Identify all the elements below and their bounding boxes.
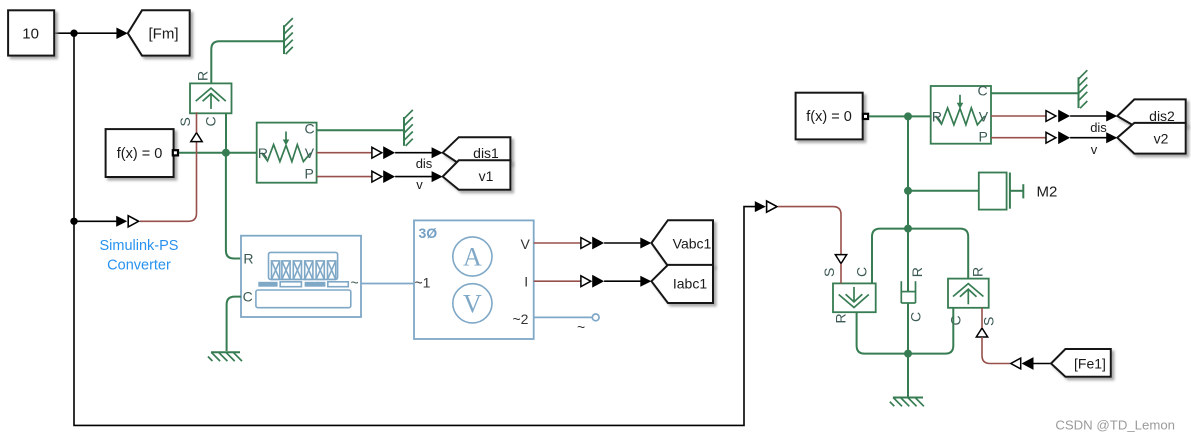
PS-Simulink converter (dis row) bbox=[372, 146, 395, 159]
svg-text:~2: ~2 bbox=[513, 311, 529, 327]
goto tag Vabc1 bbox=[651, 220, 713, 266]
wire: to goto Vabc1 bbox=[604, 238, 651, 249]
ground G1 bbox=[284, 18, 293, 54]
wire: converter to goto v1, label v bbox=[395, 171, 443, 192]
linear machine block U4 (light blue) bbox=[241, 236, 361, 317]
node: junction to mass M2 bbox=[904, 187, 912, 195]
svg-text:f(x) = 0: f(x) = 0 bbox=[806, 109, 852, 125]
wire: to goto Iabc1 bbox=[604, 276, 651, 287]
PS-Simulink converter ([Fe1] row, pointing left) bbox=[1011, 357, 1034, 370]
goto tag dis2 bbox=[1117, 99, 1185, 126]
wire: stub from triangle into U8 bbox=[840, 264, 842, 284]
force source U2 (chevron up) bbox=[190, 83, 232, 113]
svg-text:CSDN @TD_Lemon: CSDN @TD_Lemon bbox=[1055, 418, 1175, 433]
force source U10 (chevron up) bbox=[948, 279, 989, 308]
wire: main vertical bus of right cluster bbox=[907, 116, 909, 292]
wire: long feedback wire down, across bottom and up to right converter bbox=[74, 33, 755, 425]
ground G4 bbox=[208, 352, 242, 361]
Simulink-PS converter 1 (triangle icon) bbox=[128, 216, 138, 227]
svg-text:Vabc1: Vabc1 bbox=[673, 236, 712, 252]
ground G2 bbox=[404, 110, 413, 146]
wire: red S input of U2 from converter bbox=[140, 142, 197, 222]
svg-text:v: v bbox=[416, 177, 423, 192]
svg-text:C: C bbox=[948, 315, 964, 325]
force source U8 (chevron down) bbox=[833, 283, 876, 312]
wire: red from triangle to from tag [Fe1] bbox=[982, 337, 1010, 364]
wire: to goto dis2, label dis bbox=[1070, 111, 1117, 136]
wire: U10 C to bottom junction bbox=[908, 308, 953, 354]
wire: U2 R port up to ground G1 bbox=[211, 41, 283, 83]
wire: U8 R to bottom junction bbox=[857, 312, 908, 353]
wire: stub from S triangle to U2 bbox=[196, 112, 198, 132]
motion sensor U7 bbox=[931, 83, 991, 145]
svg-text:v1: v1 bbox=[479, 168, 494, 184]
svg-text:C: C bbox=[202, 116, 218, 126]
svg-text:V: V bbox=[463, 289, 482, 318]
wire: U2 C port down to junction bbox=[225, 113, 227, 152]
svg-text:R: R bbox=[932, 109, 942, 125]
svg-text:P: P bbox=[305, 165, 314, 181]
goto tag v1 bbox=[443, 160, 511, 190]
wire: U7 V output (red) bbox=[991, 115, 1046, 117]
svg-text:v: v bbox=[1091, 142, 1098, 157]
goto tag Iabc1 bbox=[651, 265, 713, 303]
svg-text:~: ~ bbox=[351, 275, 359, 291]
wire: U7 P output (red) bbox=[991, 137, 1046, 139]
svg-text:dis1: dis1 bbox=[473, 145, 499, 161]
node: junction right cluster top bbox=[904, 112, 912, 120]
pin triangle S of U10 bbox=[976, 328, 987, 337]
ground G5 bbox=[890, 398, 924, 407]
svg-text:S: S bbox=[821, 268, 837, 277]
damper U9 bbox=[901, 281, 917, 303]
svg-text:R: R bbox=[258, 145, 268, 161]
solver block U6 f(x)=0 bbox=[796, 93, 869, 140]
svg-text:R: R bbox=[970, 267, 986, 277]
node: junction to Simulink-PS Converter bbox=[70, 218, 77, 225]
ground G3 bbox=[1079, 70, 1088, 108]
svg-text:I: I bbox=[524, 274, 528, 290]
svg-text:dis: dis bbox=[1090, 120, 1107, 135]
svg-text:V: V bbox=[521, 236, 531, 252]
wire: junction to Simulink-PS converter 1 bbox=[74, 216, 127, 227]
wire: junction to ground G5 bbox=[907, 354, 909, 398]
svg-text:R: R bbox=[243, 251, 253, 267]
svg-text:C: C bbox=[908, 312, 924, 322]
wire: U5 V output (red) bbox=[534, 242, 581, 244]
pin triangle S of U2 bbox=[191, 133, 202, 142]
svg-text:Simulink-PS: Simulink-PS bbox=[100, 238, 179, 254]
wire: from tag [Fe1] to converter bbox=[1034, 363, 1052, 365]
wire: U9 C to bottom junction bbox=[907, 303, 909, 354]
svg-text:V: V bbox=[979, 109, 989, 125]
svg-text:C: C bbox=[243, 289, 253, 305]
wire: U5 ~2 unconnected stub bbox=[534, 314, 599, 335]
svg-text:10: 10 bbox=[22, 26, 39, 43]
svg-text:R: R bbox=[195, 71, 211, 81]
wire: junction down to linear machine R port bbox=[226, 153, 241, 259]
PS-Simulink converter (Vabc row) bbox=[581, 237, 604, 250]
goto tag v2 bbox=[1117, 123, 1185, 154]
three-phase VI measurement block U5 bbox=[414, 220, 534, 339]
wire: stub from U10 into triangle bbox=[981, 308, 983, 328]
pin triangle S of U8 bbox=[835, 255, 846, 264]
wire: U7 C port to ground G3 bbox=[991, 92, 1078, 94]
wire: junction to mass M2 bbox=[908, 190, 979, 192]
wire: red from converter 2 to force source U8 S input bbox=[778, 207, 841, 255]
wire: U4 C port to ground G4 bbox=[227, 297, 241, 351]
svg-text:v2: v2 bbox=[1154, 131, 1169, 147]
PS-Simulink converter (Iabc row) bbox=[581, 275, 604, 288]
wire: U3 P output (red) to PS-Simulink converter bbox=[317, 176, 372, 178]
wire: solver 2 to motion sensor U7 R bbox=[869, 115, 931, 117]
svg-text:S: S bbox=[981, 317, 997, 326]
PS-Simulink converter (v2 row) bbox=[1046, 131, 1070, 144]
svg-text:Iabc1: Iabc1 bbox=[673, 276, 707, 292]
goto tag [Fm] bbox=[128, 10, 190, 55]
svg-text:~: ~ bbox=[577, 319, 585, 335]
solver block U1 f(x)=0 bbox=[106, 129, 178, 177]
PS-Simulink converter (dis2 row) bbox=[1046, 110, 1070, 123]
Simulink-PS converter 2 (triangle icon) bbox=[755, 201, 777, 212]
svg-text:C: C bbox=[854, 267, 870, 277]
svg-text:dis2: dis2 bbox=[1149, 108, 1175, 124]
node: junction top bus bbox=[904, 225, 912, 233]
svg-text:C: C bbox=[305, 120, 315, 136]
svg-text:~1: ~1 bbox=[415, 275, 431, 291]
node: green junction at force source C bbox=[222, 149, 230, 157]
goto tag dis1 bbox=[443, 137, 511, 163]
svg-text:[Fm]: [Fm] bbox=[149, 26, 179, 43]
wire: solver 1 to motion sensor R / junction bbox=[179, 152, 257, 154]
svg-text:R: R bbox=[833, 313, 849, 323]
wire: U4 ~ output to three-phase meter U5 bbox=[361, 283, 414, 285]
from tag [Fe1] bbox=[1051, 349, 1111, 377]
wire: to goto v2, label v bbox=[1070, 132, 1117, 157]
svg-text:C: C bbox=[978, 83, 988, 99]
constant block "10" bbox=[8, 10, 54, 55]
svg-text:R: R bbox=[909, 267, 925, 277]
label: Simulink-PS Converter bbox=[100, 238, 179, 274]
svg-text:A: A bbox=[463, 243, 482, 272]
svg-text:3Ø: 3Ø bbox=[419, 225, 438, 241]
wire: top bus to U8 C and U10 R bbox=[872, 229, 968, 284]
svg-text:V: V bbox=[305, 145, 315, 161]
svg-text:S: S bbox=[177, 117, 193, 126]
svg-text:dis: dis bbox=[416, 156, 433, 171]
svg-text:f(x) = 0: f(x) = 0 bbox=[117, 146, 163, 162]
motion sensor U3 bbox=[257, 120, 317, 182]
node: junction on constant output bbox=[70, 30, 77, 37]
mass M2 bbox=[979, 173, 1058, 210]
svg-text:M2: M2 bbox=[1037, 184, 1058, 201]
wire: constant 10 to goto [Fm] bbox=[54, 28, 128, 40]
svg-text:[Fe1]: [Fe1] bbox=[1074, 356, 1106, 372]
svg-text:Converter: Converter bbox=[107, 258, 171, 274]
wire: U5 I output (red) bbox=[534, 280, 581, 282]
svg-text:P: P bbox=[979, 129, 988, 145]
wire: converter to goto dis1, label dis bbox=[395, 147, 443, 171]
node: bottom junction bbox=[904, 350, 912, 358]
wire: U3 C port to ground G2 bbox=[317, 129, 403, 131]
wire: U3 V output (red) to PS-Simulink converter bbox=[317, 152, 372, 154]
PS-Simulink converter (v row) bbox=[372, 170, 395, 183]
